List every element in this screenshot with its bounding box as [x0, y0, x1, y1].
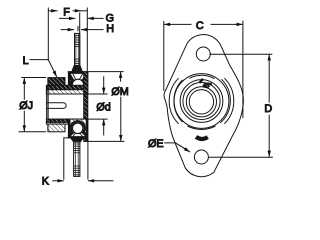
- extension line C (flange mounting face): [86, 8, 88, 72]
- ball (top): [72, 79, 83, 90]
- bottom stud (bolt): [74, 142, 80, 176]
- top stud base plate: [72, 66, 83, 72]
- set screw hole (slot with round cap): [46, 103, 66, 109]
- svg-text:L: L: [23, 55, 29, 67]
- hub left face: [47, 78, 49, 132]
- bottom stud base plate: [71, 138, 84, 142]
- dimension G: [59, 13, 114, 25]
- extension line B (stud right edge): [79, 13, 81, 67]
- svg-text:K: K: [42, 176, 50, 188]
- dimension K: [42, 176, 114, 188]
- ball (bottom): [73, 123, 83, 133]
- extension line A (hub left face): [47, 8, 49, 61]
- dimension OM: [111, 72, 128, 142]
- dimension D extension lines: [209, 53, 272, 55]
- spherical seat side arcs: [169, 78, 234, 129]
- housing bottom boss line: [63, 137, 88, 139]
- set screw mark + 45 deg label: [200, 79, 204, 83]
- shaft bore lines with extensions: [46, 93, 107, 95]
- svg-text:ØM: ØM: [111, 86, 128, 98]
- inner ring top band: [46, 85, 83, 89]
- outer double arc (top/bottom): [189, 75, 214, 78]
- flange outline: [164, 35, 243, 177]
- housing top edge: [68, 71, 88, 73]
- flange plate column (section): [84, 72, 88, 142]
- top stud (bolt): [75, 33, 80, 66]
- svg-text:ØJ: ØJ: [19, 100, 33, 112]
- top bearing box (outer ring section): [68, 72, 87, 94]
- dimension C: [164, 20, 243, 32]
- locking collar top block: [48, 78, 65, 86]
- dimension K extension lines: [63, 138, 65, 179]
- bearing circles: [174, 74, 229, 129]
- grease zerk at housing bottom (front view): [196, 137, 208, 139]
- svg-text:ØE: ØE: [148, 138, 164, 150]
- OM top extension line: [88, 71, 124, 73]
- svg-text:C: C: [196, 20, 204, 32]
- inner ring bottom band: [46, 119, 83, 122]
- locking collar bottom block: [48, 124, 65, 132]
- label OE with leader: [148, 138, 190, 152]
- dimension H: [61, 23, 115, 35]
- svg-text:Ød: Ød: [96, 101, 110, 113]
- dimension OJ: [19, 78, 47, 132]
- dimension F: [48, 6, 87, 18]
- OM bottom extension / flange bottom edge: [85, 140, 125, 142]
- dimension C extension lines: [163, 21, 165, 91]
- svg-text:D: D: [264, 103, 272, 115]
- label L with leader: [23, 55, 57, 77]
- top bolt hole: [196, 47, 210, 61]
- bottom bolt hole: [194, 150, 208, 164]
- svg-text:F: F: [63, 6, 70, 18]
- dimension D: [264, 54, 272, 157]
- dimension Od: [96, 76, 110, 135]
- svg-text:H: H: [106, 23, 114, 35]
- svg-text:45°: 45°: [203, 83, 213, 89]
- bottom bearing box: [68, 119, 87, 138]
